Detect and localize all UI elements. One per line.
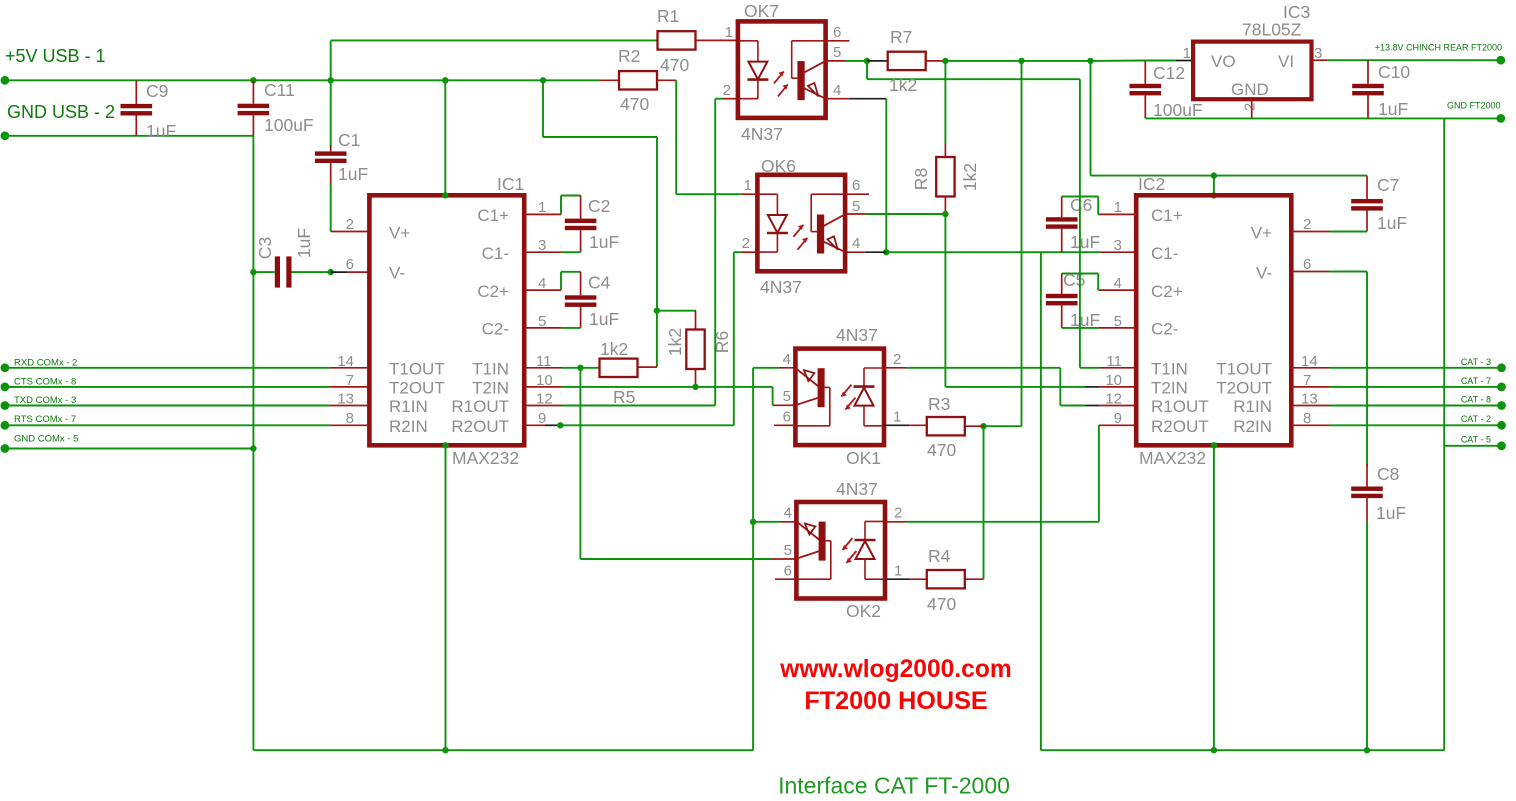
- wire R8 top: [944, 61, 946, 144]
- capacitor C5: [1046, 294, 1078, 298]
- wire C2 bottom to pin3: [561, 251, 581, 253]
- optocoupler OK2 body: [796, 502, 885, 599]
- regulator IC3 78L05Z body: [1193, 42, 1311, 100]
- pin OK2.2 stub: [885, 521, 907, 523]
- svg-text:OK7: OK7: [744, 1, 779, 21]
- svg-text:4: 4: [783, 351, 791, 368]
- capacitor C1: [315, 151, 347, 155]
- OK6 light arrows: [793, 225, 803, 237]
- svg-text:5: 5: [833, 44, 841, 61]
- svg-text:1uF: 1uF: [294, 228, 314, 258]
- R4 right stub: [965, 578, 984, 580]
- svg-text:C1: C1: [338, 130, 360, 150]
- svg-text:11: 11: [1106, 353, 1122, 370]
- svg-text:2: 2: [346, 216, 354, 233]
- wire y=176: [1091, 175, 1214, 177]
- C2 top lead: [580, 196, 582, 219]
- svg-text:GND FT2000: GND FT2000: [1447, 101, 1501, 111]
- resistor R8: [936, 157, 954, 197]
- pin OK1.4 stub: [779, 367, 795, 369]
- wire bottom rail left: [253, 749, 753, 751]
- wire y=176 to C7: [1214, 175, 1367, 177]
- pin IC1.5 stub: [524, 327, 561, 329]
- svg-text:C2: C2: [588, 196, 610, 216]
- junction R2OUT: [557, 422, 563, 428]
- wire C2 jog up: [560, 196, 562, 215]
- terminal CAT - 3: [1497, 363, 1506, 372]
- svg-text:C1-: C1-: [482, 244, 509, 263]
- pin IC2.6 stub: [1291, 271, 1330, 273]
- junction VCC IC2: [1211, 172, 1217, 178]
- wire +5V bus y=80: [5, 79, 599, 81]
- svg-text:1k2: 1k2: [889, 75, 917, 95]
- capacitor C2: [565, 219, 597, 223]
- wire to OK6.1: [676, 193, 742, 195]
- pin IC2.11 stub: [1099, 367, 1136, 369]
- svg-text:T2IN: T2IN: [1151, 379, 1188, 398]
- svg-text:FT2000 HOUSE: FT2000 HOUSE: [804, 687, 987, 715]
- resistor R1: [658, 31, 696, 49]
- svg-text:T2IN: T2IN: [472, 379, 509, 398]
- pin OK2.4 stub: [779, 521, 796, 523]
- wire T1IN down x=580: [579, 368, 581, 559]
- pin IC2.10 stub: [1099, 386, 1136, 388]
- capacitor C9: [121, 104, 153, 108]
- C10 bottom lead: [1367, 95, 1369, 118]
- svg-text:2: 2: [1242, 103, 1259, 111]
- pin OK7.4 stub: [826, 98, 850, 100]
- svg-text:CAT - 8: CAT - 8: [1461, 395, 1491, 405]
- wire C2 jog across: [561, 195, 581, 197]
- pin OK6.1 stub: [742, 193, 757, 195]
- svg-text:C11: C11: [264, 80, 295, 100]
- wire to OK2 pin4: [753, 521, 779, 523]
- wire C6 jog across: [1062, 196, 1099, 198]
- junction +5V/C1: [328, 77, 334, 83]
- wire C5 jog up: [1097, 274, 1099, 291]
- resistor R3: [927, 417, 965, 435]
- svg-text:4: 4: [852, 235, 860, 252]
- pin IC2.3 stub: [1099, 251, 1136, 253]
- wire T2IN row to IC2: [945, 386, 1085, 388]
- svg-text:R2OUT: R2OUT: [1151, 417, 1209, 436]
- wire +13.8V: [1327, 59, 1501, 61]
- wire x=867 drop: [866, 61, 868, 79]
- wire up to R1 row: [330, 40, 332, 80]
- wire to IC2 pin11: [1080, 367, 1099, 369]
- junction R3 out: [980, 423, 986, 429]
- pin OK2.6 stub: [775, 578, 796, 580]
- pin IC1.14 stub: [330, 367, 369, 369]
- svg-text:R1IN: R1IN: [389, 397, 428, 416]
- svg-text:V+: V+: [1251, 224, 1272, 243]
- wire C4 bottom to pin5: [561, 327, 581, 329]
- capacitor C8: [1351, 487, 1383, 491]
- wire IC1 bottom down: [445, 445, 447, 750]
- R8 bottom lead: [944, 197, 946, 215]
- junction x=1090: [1087, 58, 1093, 64]
- op-amp U-block IC1 MAX232 body: [369, 195, 524, 445]
- svg-text:12: 12: [1105, 391, 1122, 408]
- svg-text:1: 1: [725, 24, 733, 41]
- svg-text:T1OUT: T1OUT: [389, 360, 445, 379]
- R6 top lead: [695, 311, 697, 330]
- pin OK1.6 stub: [774, 424, 795, 426]
- svg-text:2: 2: [893, 351, 901, 368]
- svg-text:470: 470: [620, 94, 649, 114]
- pin IC1.12 stub: [524, 405, 562, 407]
- wire GND vertical x=253: [252, 136, 254, 750]
- OK7 light arrows: [774, 71, 784, 83]
- wire pin11 to R5: [562, 367, 600, 369]
- wire C3 right lead: [292, 271, 331, 273]
- wire C1 top lead: [330, 80, 332, 147]
- svg-text:V+: V+: [389, 224, 410, 243]
- C12 top lead: [1144, 61, 1146, 84]
- pin OK1.1 dark segment: [884, 424, 909, 426]
- OK7 LED: [738, 40, 758, 42]
- svg-text:R2IN: R2IN: [1233, 417, 1272, 436]
- pin IC3.3 stub: [1312, 59, 1328, 61]
- capacitor C7: [1351, 199, 1383, 203]
- svg-text:6: 6: [833, 24, 841, 41]
- terminal RTS COMx - 7: [1, 421, 10, 430]
- pin OK6.4 stub: [846, 251, 866, 253]
- svg-text:4N37: 4N37: [836, 479, 878, 499]
- svg-text:R2IN: R2IN: [389, 417, 428, 436]
- junction R6/T2IN: [692, 384, 698, 390]
- terminal GND FT2000: [1496, 114, 1505, 123]
- svg-text:GND COMx - 5: GND COMx - 5: [14, 434, 78, 445]
- pin IC2.12 dark segment: [1085, 405, 1099, 407]
- wire CAT - 2: [1330, 424, 1502, 426]
- pin IC1.3 stub: [524, 251, 561, 253]
- pin IC1.8 stub: [330, 424, 369, 426]
- OK1 phototransistor: [818, 368, 825, 407]
- svg-text:C2+: C2+: [477, 282, 509, 301]
- wire y=79 across: [867, 78, 1080, 80]
- svg-text:13: 13: [337, 391, 354, 408]
- terminal RXD COMx - 2: [1, 363, 10, 372]
- pin OK6.6 stub: [846, 193, 869, 195]
- R2 right stub: [657, 79, 676, 81]
- svg-text:CAT - 2: CAT - 2: [1461, 414, 1491, 424]
- OK1 LED: [864, 367, 884, 369]
- svg-text:C3: C3: [255, 237, 275, 259]
- pin IC2.8 stub: [1291, 424, 1330, 426]
- wire x=1080 down (over labels): [1079, 79, 1081, 368]
- svg-text:7: 7: [346, 372, 354, 389]
- wire CAT - 7: [1330, 386, 1502, 388]
- svg-text:www.wlog2000.com: www.wlog2000.com: [779, 656, 1011, 683]
- OK1 light arrows: [841, 385, 851, 397]
- svg-text:78L05Z: 78L05Z: [1242, 20, 1302, 40]
- svg-text:C2-: C2-: [482, 320, 509, 339]
- wire OK6.5 to R8: [866, 213, 945, 215]
- pin OK6.5 stub: [846, 213, 866, 215]
- pin IC3.2 stub: [1251, 99, 1253, 118]
- junction R6 branch: [654, 308, 660, 314]
- svg-text:MAX232: MAX232: [452, 448, 519, 468]
- wire C3 left lead: [253, 271, 274, 273]
- wire R1OUT row: [562, 405, 715, 407]
- wire x=657 to R5 out: [656, 311, 658, 367]
- wire C1 to V+: [330, 184, 332, 232]
- wire x=676 down: [675, 80, 677, 194]
- junction bottom rail x=1367: [1364, 747, 1370, 753]
- C6 top lead: [1061, 197, 1063, 218]
- wire C5 bottom to pin5: [1062, 327, 1099, 329]
- svg-text:CAT - 7: CAT - 7: [1461, 376, 1491, 386]
- capacitor C6: [1046, 217, 1078, 221]
- pin IC2.10 dark segment: [1085, 386, 1099, 388]
- op-amp U-block IC2 MAX232 body: [1136, 195, 1291, 445]
- svg-text:R8: R8: [911, 168, 931, 190]
- terminal GND USB: [1, 131, 10, 140]
- C10 top lead: [1367, 60, 1369, 84]
- junction R8/OK6.5: [942, 211, 948, 217]
- C5 bottom lead: [1061, 305, 1063, 328]
- svg-text:T2OUT: T2OUT: [1216, 379, 1272, 398]
- svg-text:1: 1: [894, 563, 902, 580]
- terminal CAT - 2: [1497, 421, 1506, 430]
- svg-text:C1-: C1-: [1151, 244, 1178, 263]
- wire C4 jog across: [561, 271, 581, 273]
- wire into IC2 top: [1213, 176, 1215, 196]
- C8 bottom lead: [1366, 498, 1368, 521]
- wire C8 to rail: [1366, 522, 1368, 751]
- pin IC1.10 stub: [524, 386, 562, 388]
- pin IC1.13 stub: [330, 405, 369, 407]
- wire R2OUT row: [560, 424, 734, 426]
- junction bottom rail x=445: [442, 747, 448, 753]
- wire C5 jog across: [1062, 273, 1099, 275]
- pin IC1.9 dark segment: [545, 424, 560, 426]
- svg-text:C1+: C1+: [1151, 206, 1183, 225]
- R8 top lead: [944, 144, 946, 158]
- capacitor C3: [275, 256, 280, 287]
- wire C9 top lead: [135, 80, 137, 104]
- wire RTS COMx: [5, 424, 330, 426]
- pin IC2.1 stub: [1099, 213, 1136, 215]
- pin IC3.1 dark segment: [1176, 60, 1193, 62]
- pin OK6.2 stub: [742, 251, 757, 253]
- wire to R3 out: [984, 425, 1022, 427]
- wire x=1367 down: [1366, 272, 1368, 467]
- pin IC1.11 stub: [524, 367, 562, 369]
- svg-text:1: 1: [1183, 45, 1191, 62]
- pin IC2.4 stub: [1099, 289, 1136, 291]
- svg-text:R2OUT: R2OUT: [451, 417, 509, 436]
- junction IC1 top edge: [442, 192, 448, 198]
- R2 left stub: [599, 79, 619, 81]
- svg-text:1uF: 1uF: [1376, 503, 1406, 523]
- pin IC1.2 V+ stub: [331, 231, 370, 233]
- OK6 phototransistor: [811, 193, 845, 195]
- svg-text:470: 470: [927, 594, 956, 614]
- svg-text:C2+: C2+: [1151, 282, 1183, 301]
- wire to OK2 pin5: [580, 558, 771, 560]
- resistor R4: [927, 570, 965, 588]
- svg-text:C4: C4: [588, 273, 611, 293]
- pin OK7.6 stub: [826, 40, 850, 42]
- svg-text:4: 4: [784, 505, 792, 522]
- junction IC2 bottom edge: [1211, 442, 1217, 448]
- svg-text:RTS COMx - 7: RTS COMx - 7: [14, 414, 76, 425]
- svg-text:1uF: 1uF: [338, 164, 368, 184]
- terminal +5V USB: [1, 76, 10, 85]
- pin IC2.12 stub: [1099, 405, 1136, 407]
- C7 bottom lead: [1366, 211, 1368, 232]
- svg-text:6: 6: [852, 177, 860, 194]
- svg-text:C8: C8: [1377, 464, 1399, 484]
- wire VCC into IC1 top: [444, 80, 446, 195]
- OK6.4 dark segment: [866, 251, 886, 253]
- capacitor C4: [565, 295, 597, 299]
- pin IC2.14 stub: [1291, 367, 1330, 369]
- OK6 LED: [757, 193, 777, 195]
- svg-text:1uF: 1uF: [1070, 232, 1100, 252]
- pin IC2.13 stub: [1291, 405, 1330, 407]
- pin IC1.4 stub: [524, 289, 561, 291]
- svg-text:OK2: OK2: [846, 601, 881, 621]
- junction GND/C3: [250, 269, 256, 275]
- terminal CAT - 7: [1497, 383, 1506, 392]
- svg-text:4N37: 4N37: [836, 325, 878, 345]
- wire x=1041 down to rail: [1040, 252, 1042, 750]
- terminal CAT - 8: [1497, 401, 1506, 410]
- svg-text:5: 5: [784, 542, 792, 559]
- wire CAT - 5: [1444, 445, 1501, 447]
- capacitor C11: [238, 104, 270, 108]
- C12 bottom lead: [1144, 95, 1146, 118]
- wire x=983 down: [983, 426, 985, 579]
- OK2 light arrows: [842, 538, 852, 550]
- R4 left stub: [909, 578, 927, 580]
- wire C4 jog up: [560, 272, 562, 290]
- optocoupler OK7 body: [738, 21, 826, 118]
- svg-text:1k2: 1k2: [960, 163, 980, 191]
- wire T2IN row: [562, 386, 773, 388]
- wire GND FT2000 rail: [1145, 117, 1501, 119]
- svg-text:T1IN: T1IN: [1151, 360, 1188, 379]
- wire C9 bottom lead: [135, 116, 137, 136]
- resistor R7: [888, 52, 926, 70]
- svg-text:R3: R3: [928, 394, 950, 414]
- svg-text:2: 2: [894, 505, 902, 522]
- wire x=1099 up: [1098, 425, 1100, 522]
- svg-text:R1OUT: R1OUT: [1151, 397, 1209, 416]
- svg-text:6: 6: [346, 256, 354, 273]
- wire x=1060 down: [1059, 368, 1061, 406]
- wire to R6 top: [657, 310, 696, 312]
- pin IC1.1 stub: [524, 213, 561, 215]
- svg-text:1: 1: [744, 177, 752, 194]
- wire x=886 down: [885, 99, 887, 253]
- wire y=61 to C12: [1091, 60, 1146, 62]
- OK2 phototransistor: [819, 522, 826, 561]
- C4 top lead: [580, 272, 582, 296]
- wire GND COMx: [5, 448, 254, 450]
- svg-text:6: 6: [1303, 256, 1311, 273]
- junction +5V/C11: [250, 77, 256, 83]
- resistor R2: [619, 71, 657, 89]
- junction bottom rail x=1214: [1211, 747, 1217, 753]
- junction C3/V-: [328, 269, 334, 275]
- svg-text:CTS COMx - 8: CTS COMx - 8: [14, 376, 76, 387]
- junction OK2.4: [750, 519, 756, 525]
- wire R1 to OK7.1: [696, 39, 738, 41]
- svg-text:3: 3: [1114, 237, 1122, 254]
- R6 bottom lead: [695, 369, 697, 387]
- wire V- out: [1330, 271, 1367, 273]
- wire C1- row y=252: [886, 251, 1061, 253]
- svg-text:6: 6: [783, 409, 791, 426]
- pin IC2.5 stub: [1099, 327, 1136, 329]
- svg-text:C5: C5: [1063, 270, 1085, 290]
- svg-text:4N37: 4N37: [760, 277, 802, 297]
- R7 right stub: [926, 60, 946, 62]
- svg-text:R5: R5: [613, 387, 635, 407]
- wire OK1.2 row: [906, 367, 1060, 369]
- wire OK2.2 row: [907, 521, 1099, 523]
- resistor R6: [686, 330, 704, 370]
- wire down to OK1.5: [772, 387, 774, 405]
- junction IC2 top edge: [1211, 192, 1217, 198]
- wire C1 bottom lead: [330, 163, 332, 186]
- svg-text:4: 4: [833, 82, 841, 99]
- wire y=137 across: [543, 136, 657, 138]
- svg-text:9: 9: [1114, 410, 1122, 427]
- terminal CTS COMx - 8: [1, 383, 10, 392]
- junction OK7.5/R7: [864, 58, 870, 64]
- pin OK1.2 stub: [884, 367, 906, 369]
- svg-text:V-: V-: [389, 264, 405, 283]
- wire x=1444 down: [1443, 118, 1445, 750]
- svg-text:100uF: 100uF: [264, 115, 314, 135]
- pin IC1.6 V- stub: [347, 271, 369, 273]
- wire GND USB y=136: [5, 135, 254, 137]
- wire y=61: [945, 60, 1021, 62]
- svg-text:1: 1: [538, 199, 546, 216]
- pin IC1.6 dark segment: [331, 271, 347, 273]
- svg-text:GND USB - 2: GND USB - 2: [7, 102, 115, 122]
- OK7.4 dark segment: [849, 98, 886, 100]
- svg-text:T2OUT: T2OUT: [389, 379, 445, 398]
- svg-text:R1OUT: R1OUT: [451, 397, 509, 416]
- wire C11 bottom lead: [252, 115, 254, 136]
- svg-text:C10: C10: [1378, 62, 1410, 82]
- svg-text:R2: R2: [618, 46, 640, 66]
- OK2 LED: [865, 520, 885, 522]
- optocoupler OK6 body: [757, 175, 845, 271]
- svg-text:GND: GND: [1231, 80, 1269, 99]
- svg-text:R1: R1: [657, 6, 679, 26]
- svg-text:6: 6: [784, 563, 792, 580]
- junction IC1 top VCC: [442, 77, 448, 83]
- junction OK6.4: [883, 249, 889, 255]
- wire CTS COMx: [5, 386, 330, 388]
- svg-text:5: 5: [852, 198, 860, 215]
- svg-text:T1OUT: T1OUT: [1216, 360, 1272, 379]
- wire CAT - 8: [1330, 405, 1502, 407]
- wire bottom rail right: [1041, 749, 1444, 751]
- svg-text:1uF: 1uF: [1377, 213, 1407, 233]
- wire x=1090 down: [1090, 61, 1092, 176]
- junction x=1021: [1018, 58, 1024, 64]
- wire x=753 up to OK1.4: [752, 368, 754, 750]
- junction y=80 x=543: [540, 77, 546, 83]
